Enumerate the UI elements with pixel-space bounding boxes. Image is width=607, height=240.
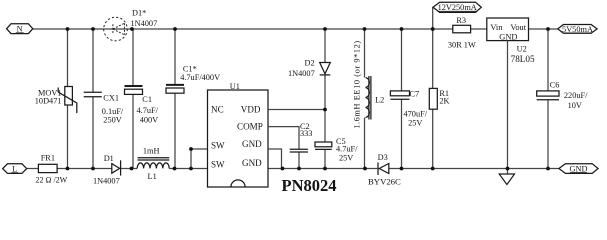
junction	[66, 27, 70, 31]
svg-text:GND: GND	[242, 139, 262, 149]
junction	[363, 167, 367, 171]
terminal GND	[559, 164, 598, 174]
svg-text:C6: C6	[550, 81, 560, 90]
inductor L1	[137, 147, 169, 181]
label PN8024	[282, 176, 337, 195]
wire bottom L rail	[27, 168, 559, 170]
svg-text:333: 333	[300, 129, 312, 138]
IC U1 PN8024	[208, 82, 269, 187]
svg-text:L2: L2	[375, 96, 384, 105]
svg-text:400V: 400V	[140, 116, 158, 125]
capacitor C1*	[166, 29, 220, 169]
capacitor C1	[125, 29, 159, 169]
diode D3	[368, 153, 401, 186]
resistor R1	[429, 8, 449, 169]
svg-text:SW: SW	[211, 159, 225, 169]
terminal L	[3, 164, 27, 174]
svg-text:GND: GND	[570, 164, 588, 173]
svg-text:SW: SW	[211, 140, 225, 150]
capacitor C2	[290, 122, 313, 169]
svg-text:CX1: CX1	[103, 94, 119, 103]
ground	[499, 174, 514, 185]
terminal 5V50mA	[558, 25, 597, 34]
svg-text:GND: GND	[499, 33, 517, 42]
svg-text:5V50mA: 5V50mA	[562, 25, 593, 34]
svg-text:D3: D3	[378, 153, 388, 162]
junction	[323, 108, 327, 112]
junction	[546, 167, 550, 171]
svg-text:1mH: 1mH	[143, 147, 160, 156]
svg-text:NC: NC	[211, 105, 224, 115]
svg-text:1N4007: 1N4007	[131, 19, 158, 28]
svg-text:D1: D1	[104, 154, 114, 163]
junction	[66, 167, 70, 171]
inductor L2	[352, 29, 384, 169]
junction	[431, 27, 435, 31]
varistor MOV1	[35, 29, 77, 169]
wire SW link	[191, 149, 208, 169]
junction	[400, 167, 404, 171]
svg-text:FR1: FR1	[41, 153, 55, 162]
junction	[323, 27, 327, 31]
diode D2	[288, 29, 330, 110]
regulator U2 78L05	[487, 18, 535, 64]
wire top N rail	[33, 28, 558, 30]
svg-text:L1: L1	[148, 172, 157, 181]
svg-text:R3: R3	[456, 16, 466, 25]
capacitor C7	[390, 29, 427, 169]
svg-text:10V: 10V	[568, 101, 582, 110]
wire U2 GND	[507, 41, 509, 174]
terminal 12V250mA	[433, 2, 481, 12]
svg-text:470uF/: 470uF/	[404, 110, 428, 119]
junction	[91, 27, 95, 31]
terminal N	[7, 24, 33, 34]
svg-text:220uF/: 220uF/	[564, 91, 588, 100]
svg-text:25V: 25V	[408, 119, 422, 128]
junction	[506, 167, 510, 171]
svg-text:N: N	[17, 25, 23, 34]
resistor FR1	[36, 153, 68, 184]
svg-text:30R 1W: 30R 1W	[448, 41, 476, 50]
svg-text:10D471: 10D471	[35, 96, 62, 105]
junction	[431, 167, 435, 171]
svg-text:22 Ω /2W: 22 Ω /2W	[36, 175, 68, 184]
svg-text:12V250mA: 12V250mA	[438, 3, 477, 12]
junction	[130, 27, 134, 31]
svg-text:Vout: Vout	[510, 23, 526, 32]
svg-text:U1: U1	[230, 82, 240, 91]
svg-text:C7: C7	[410, 90, 420, 99]
junction	[189, 147, 193, 151]
svg-text:U2: U2	[517, 45, 527, 54]
junction	[297, 167, 301, 171]
svg-text:250V: 250V	[103, 116, 121, 125]
junction	[91, 167, 95, 171]
svg-text:0.1uF/: 0.1uF/	[102, 107, 124, 116]
capacitor CX1	[84, 29, 124, 169]
svg-text:PN8024: PN8024	[282, 176, 337, 195]
junction	[546, 27, 550, 31]
svg-text:1.6mH EE10 (or 9*12): 1.6mH EE10 (or 9*12)	[352, 41, 361, 129]
junction	[189, 167, 193, 171]
svg-text:GND: GND	[242, 158, 262, 168]
diode D1	[93, 154, 121, 185]
svg-text:L: L	[12, 165, 17, 174]
svg-text:COMP: COMP	[237, 122, 263, 132]
junction	[400, 27, 404, 31]
junction	[363, 27, 367, 31]
junction	[281, 167, 285, 171]
resistor R3	[448, 16, 476, 50]
svg-text:78L05: 78L05	[511, 54, 535, 64]
wire VDD node	[268, 109, 325, 111]
svg-text:2K: 2K	[439, 96, 449, 105]
capacitor C5	[315, 110, 358, 169]
junction	[323, 167, 327, 171]
svg-text:1N4007: 1N4007	[288, 69, 315, 78]
svg-text:D2: D2	[305, 58, 315, 67]
svg-text:4.7uF/: 4.7uF/	[336, 145, 358, 154]
svg-text:1N4007: 1N4007	[93, 176, 120, 185]
svg-text:BYV26C: BYV26C	[368, 176, 401, 186]
junction	[130, 167, 134, 171]
svg-text:VDD: VDD	[241, 104, 261, 114]
junction	[173, 27, 177, 31]
wire GND pin join	[268, 149, 282, 169]
svg-text:4.7uF/: 4.7uF/	[137, 106, 159, 115]
wire COMP	[268, 127, 299, 150]
svg-text:Vin: Vin	[490, 23, 503, 32]
svg-text:D1*: D1*	[132, 8, 146, 17]
svg-text:25V: 25V	[339, 154, 353, 163]
junction	[173, 167, 177, 171]
svg-text:4.7uF/400V: 4.7uF/400V	[180, 73, 220, 82]
capacitor C6	[537, 29, 588, 169]
svg-text:C1: C1	[142, 95, 152, 104]
diode D1* optional (dashed)	[104, 8, 158, 40]
